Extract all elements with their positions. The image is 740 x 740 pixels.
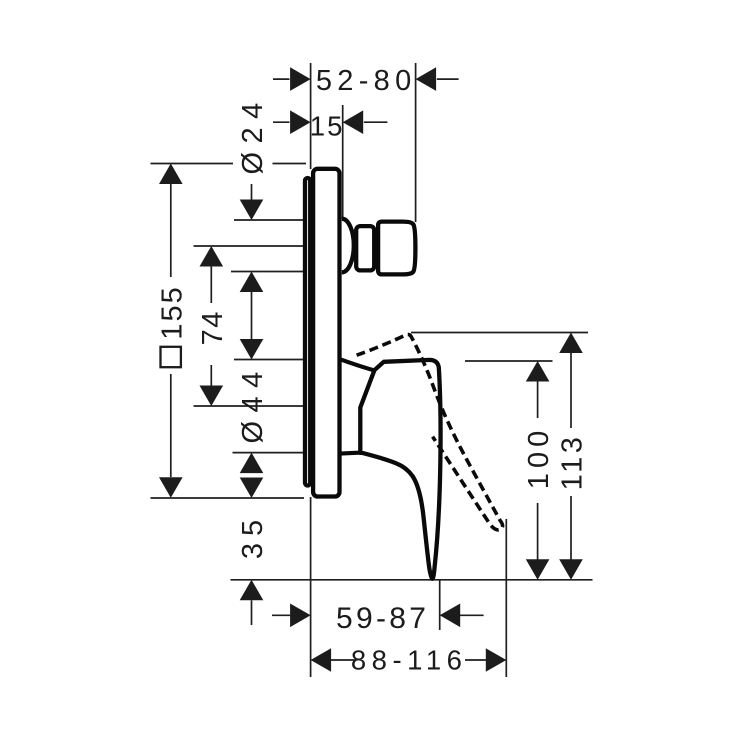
svg-text:74: 74: [197, 310, 229, 345]
dimension 74 top arrow: [200, 246, 224, 267]
dimension 74 bottom arrow: [200, 386, 224, 407]
dimension 59-87 line: [272, 614, 484, 616]
svg-text:35: 35: [237, 513, 269, 559]
dimension O24 top arrow: [240, 200, 264, 221]
extension line 15 offset: [342, 105, 344, 218]
dimension 100 bottom arrow: [526, 559, 550, 580]
svg-text:113: 113: [557, 434, 589, 491]
dimension O44 bottom arrow: [240, 453, 264, 474]
extension line solid lever top: [465, 360, 553, 362]
dimension O24-O44 connecting tail: [251, 292, 253, 339]
knob neck cylinder: [356, 226, 374, 270]
dimension 74 line: [210, 267, 212, 386]
svg-text:52-80: 52-80: [316, 65, 417, 97]
svg-text:15: 15: [310, 111, 345, 142]
dimension 52-80 line: [273, 78, 459, 80]
dimension 88-116 left arrow: [311, 648, 332, 672]
extension line rosette top: [234, 359, 304, 361]
knob body: [378, 222, 415, 275]
extension line plate bottom: [151, 497, 305, 499]
knob flare dome: [342, 219, 354, 273]
dimension square155 top arrow: [159, 164, 183, 185]
dimension 15 line: [273, 121, 387, 123]
dimension 52-80 left arrow: [290, 67, 311, 91]
extension line plate front face (upper): [310, 63, 312, 169]
dimension 15 left arrow: [290, 110, 311, 134]
extension line rosette bottom: [233, 452, 305, 454]
dimension 59-87 right arrow: [440, 604, 461, 628]
extension line knob axis: [194, 245, 305, 247]
reference line lever tip level: [231, 579, 593, 581]
dimension O44 top arrow: [240, 339, 264, 360]
svg-text:Ø44: Ø44: [237, 363, 269, 443]
dimension 100 line: [537, 382, 539, 560]
dimension O24 tail: [251, 184, 253, 200]
dimension 35 top arrow: [240, 478, 264, 499]
dimension 113 line: [570, 353, 572, 560]
dimension 100 top arrow: [526, 361, 550, 382]
rosette bottom edge: [341, 451, 362, 456]
extension line lever front: [439, 580, 441, 630]
dimension 15 right arrow: [343, 110, 364, 134]
lever handle phantom outline (up position, dashed): [357, 334, 503, 529]
seal ring behind plate: [305, 178, 310, 486]
extension line plate front face (lower): [310, 497, 312, 677]
dimension square155 line: [170, 184, 172, 477]
svg-text:Ø24: Ø24: [237, 94, 269, 174]
dimension 88-116 right arrow: [486, 648, 507, 672]
dimension square155 square symbol: [161, 347, 181, 367]
dimension 88-116 line: [331, 659, 486, 661]
svg-text:88-116: 88-116: [351, 645, 468, 676]
extension line knob tip: [415, 63, 417, 222]
dimension 113 bottom arrow: [559, 559, 583, 580]
svg-text:155: 155: [156, 285, 188, 339]
dimension O24 bottom arrow: [240, 272, 264, 293]
extension line knob top: [234, 219, 304, 221]
dimension 113 top arrow: [559, 333, 583, 354]
extension line rosette axis: [194, 405, 305, 407]
dimension 59-87 left arrow: [290, 604, 311, 628]
extension line plate top (y163.5, gap for O24 text): [151, 163, 307, 165]
lever handle (down position): [360, 360, 440, 579]
escutcheon plate side profile: [313, 169, 339, 497]
svg-text:59-87: 59-87: [336, 602, 429, 635]
dimension 35 bottom arrow: [240, 580, 264, 601]
dimension 52-80 right arrow: [416, 67, 437, 91]
svg-text:100: 100: [523, 426, 555, 489]
rosette top edge: [342, 360, 375, 371]
dimension square155 bottom arrow: [159, 477, 183, 498]
dimension 35 bottom tail: [251, 600, 253, 625]
extension line knob bottom: [231, 271, 304, 273]
extension line dashed lever tip: [505, 519, 507, 677]
extension line dashed lever top: [411, 332, 588, 334]
